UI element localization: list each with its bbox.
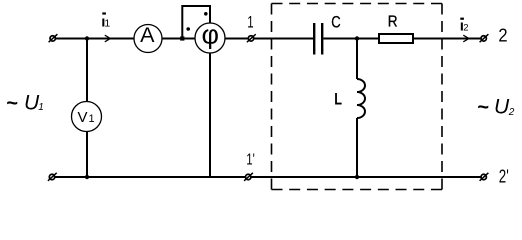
wire phase meter bottom lead xyxy=(209,53,211,177)
node junction top (L tap) xyxy=(355,36,359,40)
wire voltmeter lower lead xyxy=(86,132,88,178)
terminal 2' xyxy=(480,173,489,181)
wire ammeter to phase meter xyxy=(162,38,196,40)
wire phase meter to node 1 xyxy=(225,38,313,40)
svg-text:L: L xyxy=(334,89,342,108)
svg-text:1: 1 xyxy=(89,113,95,125)
current arrow i1 xyxy=(105,35,111,42)
label ~U1 source xyxy=(6,92,44,115)
svg-text:~: ~ xyxy=(6,93,18,115)
ammeter A xyxy=(134,23,162,53)
current arrow i2 xyxy=(463,35,469,42)
phase meter voltage-coil loop wire xyxy=(182,6,210,39)
terminal input top-left xyxy=(49,34,58,42)
svg-text:V: V xyxy=(78,109,88,126)
node 1 terminal xyxy=(247,34,256,42)
capacitor C xyxy=(314,23,322,55)
dashed two-port network box xyxy=(272,4,443,190)
terminal input bottom-left xyxy=(48,173,57,181)
svg-text:1': 1' xyxy=(246,152,255,169)
svg-text:1: 1 xyxy=(247,12,253,31)
svg-text:2: 2 xyxy=(508,107,515,118)
polarity dot upper-right xyxy=(204,12,208,16)
svg-text:~: ~ xyxy=(477,97,489,119)
voltmeter V1 xyxy=(72,102,102,132)
node junction bottom (L to rail) xyxy=(355,175,359,179)
wire resistor to terminal 2 xyxy=(414,38,481,40)
node 1' terminal xyxy=(244,173,253,181)
label i2 xyxy=(460,17,469,34)
bottom rail wire xyxy=(55,176,481,178)
terminal 2 xyxy=(480,34,489,42)
svg-text:2: 2 xyxy=(463,22,468,33)
node junction top-left (voltmeter tap) xyxy=(85,36,89,40)
label ~U2 load xyxy=(477,96,515,119)
label i1 xyxy=(101,12,110,30)
svg-text:2': 2' xyxy=(499,166,509,186)
wire voltmeter upper lead xyxy=(86,39,88,103)
resistor R xyxy=(379,34,413,43)
node junction bottom-left (voltmeter to rail) xyxy=(85,175,89,179)
svg-text:U: U xyxy=(494,96,510,119)
svg-text:φ: φ xyxy=(201,19,219,49)
svg-text:2: 2 xyxy=(498,26,507,46)
wire inductor upper lead xyxy=(356,39,358,80)
svg-text:C: C xyxy=(331,13,340,32)
polarity dot lower-left xyxy=(186,27,190,31)
svg-text:R: R xyxy=(388,13,398,30)
wire capacitor to junction to resistor xyxy=(323,38,378,40)
svg-text:1: 1 xyxy=(38,102,44,113)
svg-text:A: A xyxy=(140,23,155,47)
wire top rail: input terminal to ammeter xyxy=(55,38,134,40)
phase meter U1 (phi) xyxy=(195,19,225,53)
junction of loop on main wire xyxy=(180,36,184,40)
inductor L xyxy=(357,79,365,118)
wire inductor lower lead xyxy=(356,118,358,177)
svg-text:1: 1 xyxy=(104,17,110,29)
